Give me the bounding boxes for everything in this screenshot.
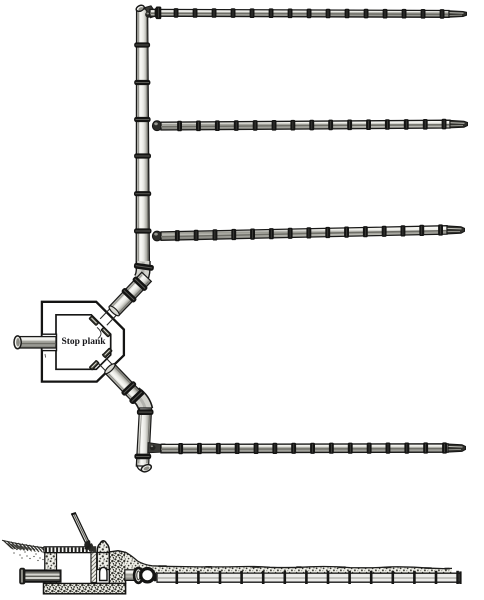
chamber bottom slab <box>44 583 126 594</box>
lateral 4 shading line <box>161 448 448 451</box>
lateral 1 coupling collar 14 <box>402 9 407 19</box>
box inlet sleeve through wall <box>42 334 57 350</box>
lateral 3 coupling collar 13 <box>401 225 406 236</box>
lateral 3 coupling collar 11 <box>363 226 368 237</box>
lower diagonal collar 2 <box>128 389 145 405</box>
stop plank groove 3 <box>102 348 112 358</box>
lateral 2 coupling collar 5 <box>253 120 258 131</box>
lateral 3 coupling collar 5 <box>250 229 255 240</box>
ground surface dark clusters <box>158 565 167 567</box>
main pipe collar 2 <box>134 80 150 85</box>
lateral 3 coupling collar 8 <box>306 227 311 238</box>
top elbow fitting to lateral 1 <box>145 6 158 18</box>
buried outlet pipe <box>157 573 460 582</box>
lower diagonal collar 1 <box>120 380 137 396</box>
box inlet pipe <box>17 337 56 348</box>
box inlet pipe open end <box>14 336 21 349</box>
outlet swivel ring (left) <box>134 568 143 583</box>
raised lever plank <box>72 513 89 542</box>
lateral 2 coupling collar 11 <box>366 119 371 130</box>
chamber left wall <box>45 553 57 584</box>
lateral 3 coupling collar 4 <box>231 229 236 240</box>
buried pipe joints <box>176 571 179 584</box>
lateral 2 coupling collar 3 <box>215 120 220 131</box>
lateral 4 coupling collar 13 <box>404 443 409 454</box>
main pipe collar 3 <box>134 117 151 122</box>
joint hub collars <box>154 573 157 582</box>
lateral 1 body <box>150 9 449 17</box>
main pipe collar 4 <box>134 153 151 158</box>
main vertical supply pipe body <box>136 9 149 265</box>
chamber interior <box>57 553 91 584</box>
lateral 1 coupling collar 1 <box>155 8 160 18</box>
main pipe collar 5 <box>134 191 151 196</box>
lateral 1 coupling collar 8 <box>288 9 293 19</box>
lateral 1 inlet collar <box>156 7 162 20</box>
plank slot side lines through wall <box>96 360 107 372</box>
lateral 2 coupling collar 12 <box>385 119 390 130</box>
plank stub above slot <box>89 543 94 552</box>
lateral 4 coupling collar 2 <box>197 443 202 454</box>
ground bank hatch (left) <box>2 540 45 548</box>
lateral 2 coupling collar 14 <box>423 119 428 130</box>
lateral 3 coupling collar 1 <box>175 230 180 241</box>
lateral 3 coupling collar 12 <box>382 226 387 237</box>
svg-text:Stop plank: Stop plank <box>62 336 107 347</box>
lateral pipe 3 branch socket <box>152 231 161 241</box>
inlet pipe (section, left) <box>20 570 61 582</box>
lower elbow (diagonal to vertical drop) <box>135 394 146 410</box>
lateral 4 coupling collar 10 <box>348 443 353 454</box>
outlet neck from masonry <box>125 570 136 581</box>
lateral 1 coupling collar 9 <box>307 9 312 19</box>
lateral 2 coupling collar 7 <box>290 120 295 131</box>
lateral 4 coupling collar 5 <box>254 443 259 454</box>
lateral 4 coupling collar 4 <box>235 443 240 454</box>
plank slot side lines through wall <box>100 307 111 319</box>
lateral 1 coupling collar 4 <box>212 8 217 18</box>
lateral 3 body <box>161 226 447 241</box>
lateral 3 coupling collar 6 <box>269 228 274 239</box>
lateral 3 spigot end <box>447 226 465 234</box>
drop pipe open lower end <box>136 465 151 472</box>
lateral 2 coupling collar 10 <box>347 120 352 131</box>
main pipe collar 6 <box>134 228 152 233</box>
lateral 1 coupling collar 15 <box>421 9 426 19</box>
lateral 3 coupling collar 9 <box>325 227 330 238</box>
inlet pipe mouth in chamber <box>60 570 62 582</box>
stop plank groove 2 <box>101 327 111 337</box>
diagonal end cap at wall <box>108 305 121 318</box>
outlet ring joint (right) <box>141 569 154 582</box>
lower diagonal pipe (box to drop) <box>92 351 145 405</box>
lateral 4 coupling collar 6 <box>272 443 277 454</box>
lateral 1 coupling collar 5 <box>231 8 236 18</box>
lateral 4 coupling collar 14 <box>423 442 428 453</box>
lateral 4 coupling collar 11 <box>367 443 372 454</box>
ground surface line <box>125 552 452 569</box>
lateral 1 coupling collar 10 <box>326 9 331 19</box>
lateral 4 body <box>161 444 448 453</box>
lateral 4 coupling collar 9 <box>329 443 334 454</box>
upper elbow (vertical to diagonal) <box>140 261 143 280</box>
chamber lid (dashed) <box>44 547 91 553</box>
drop pipe collar (top) <box>137 409 154 415</box>
main pipe top open rim <box>135 4 145 12</box>
lateral 2 coupling collar 2 <box>196 121 201 132</box>
lateral 2 coupling collar 15 <box>442 119 447 130</box>
lateral 2 coupling collar 8 <box>309 120 314 131</box>
lateral 1 coupling collar 2 <box>174 8 179 18</box>
lateral 4 coupling collar 12 <box>386 443 391 454</box>
lateral 2 coupling collar 6 <box>272 120 277 131</box>
right masonry block <box>109 551 125 584</box>
lateral 3 coupling collar 10 <box>344 227 349 238</box>
lateral 1 coupling collar 16 <box>440 9 445 19</box>
stop plank slot <box>91 552 97 582</box>
ground band over outlet pipe <box>125 552 452 573</box>
lid plank dashes <box>45 548 47 553</box>
stop plank box inner wall <box>56 315 111 370</box>
collar at elbow top <box>134 263 155 272</box>
diagonal collar 2 <box>121 287 138 303</box>
lateral 3 coupling collar 7 <box>288 228 293 239</box>
lateral 3 coupling collar 15 <box>438 224 443 235</box>
lateral 1 coupling collar 6 <box>250 8 255 18</box>
lateral 3 coupling collar 2 <box>194 230 199 241</box>
lateral 4 coupling collar 3 <box>216 443 221 454</box>
lateral 2 coupling collar 4 <box>234 120 239 131</box>
lateral 2 spigot end <box>450 120 468 128</box>
diagonal collar 1 <box>132 276 149 292</box>
standpipe dome <box>97 541 109 553</box>
stop plank groove 4 <box>89 360 99 370</box>
vertical drop pipe <box>136 408 151 466</box>
standpipe column <box>97 553 109 570</box>
lateral 4 coupling collar 7 <box>291 443 296 454</box>
lateral 2 shading line <box>161 125 450 127</box>
stop plank groove 1 <box>89 316 99 326</box>
lateral 1 coupling collar 13 <box>383 9 388 19</box>
main pipe collar 1 <box>134 42 150 47</box>
stop plank box outer wall <box>42 302 124 382</box>
lateral 4 coupling collar 1 <box>178 443 183 454</box>
upper diagonal pipe (main to box) <box>97 271 153 328</box>
drop pipe collar (bottom) <box>134 454 151 460</box>
lateral 1 coupling collar 11 <box>345 9 350 19</box>
lateral 1 coupling collar 7 <box>269 8 274 18</box>
lateral 2 coupling collar 9 <box>328 120 333 131</box>
lateral 2 coupling collar 13 <box>404 119 409 130</box>
lateral 1 shading line <box>150 13 449 14</box>
lateral 1 spigot end <box>449 11 467 18</box>
lateral 2 body <box>161 120 450 130</box>
lateral 2 coupling collar 1 <box>177 121 182 132</box>
lateral 4 inlet hub <box>161 444 166 454</box>
lateral pipe 4 branch fitting <box>148 443 161 453</box>
small reference tick <box>44 354 47 358</box>
inlet pipe bell end <box>19 568 25 585</box>
lateral 4 spigot end <box>448 444 466 452</box>
lateral 1 coupling collar 3 <box>193 8 198 18</box>
lateral 4 coupling collar 8 <box>310 443 315 454</box>
lateral 3 coupling collar 14 <box>419 225 424 236</box>
lateral 3 shading line <box>161 231 447 237</box>
lateral 3 coupling collar 3 <box>213 229 218 240</box>
lever hinge <box>83 540 92 550</box>
lateral pipe 2 branch socket <box>152 121 161 131</box>
buried pipe end <box>459 571 461 584</box>
leader line from label <box>97 327 101 338</box>
lateral 4 coupling collar 15 <box>442 442 447 453</box>
lateral 1 coupling collar 12 <box>364 9 369 19</box>
bell mouth opening <box>100 567 107 580</box>
